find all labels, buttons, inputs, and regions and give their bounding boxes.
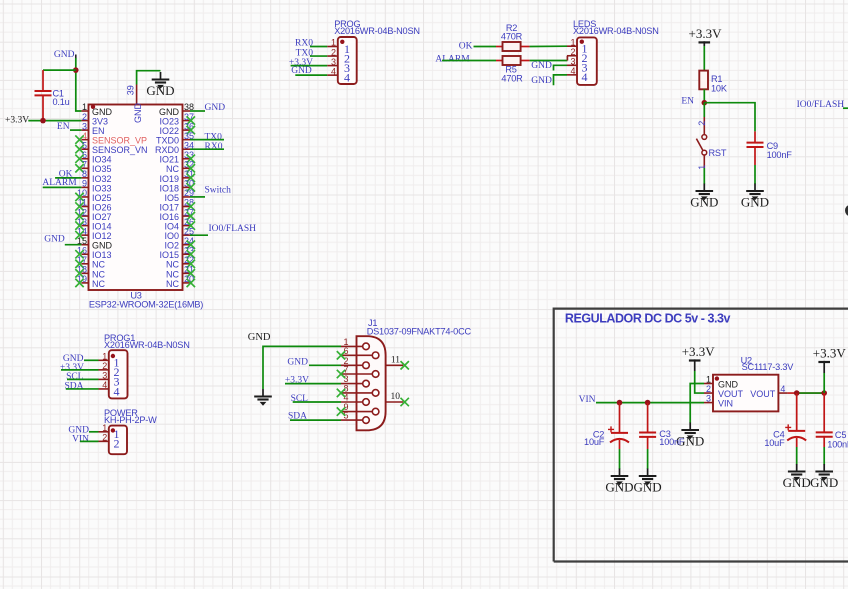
svg-text:SENSOR_VP: SENSOR_VP [92,136,147,146]
U3 pin 11 IO26 (left) [75,198,111,213]
svg-text:NC: NC [166,279,179,289]
wire U3 pin 34 to RX0 label [190,148,224,150]
svg-text:1: 1 [82,102,87,112]
wire R5 to LEDS pin 2 [530,60,568,62]
U3 pin 26 IO4 (right) [164,217,195,232]
svg-text:GND: GND [159,107,180,117]
U3 pin 34 RXD0 (right) [155,140,194,155]
svg-text:IO0/FLASH: IO0/FLASH [209,224,257,234]
U3 pin 19 NC (left) [75,274,105,289]
svg-text:0.1u: 0.1u [53,97,70,107]
J1 pin 2 [341,356,369,369]
svg-text:RX0: RX0 [205,142,223,152]
svg-text:4: 4 [343,393,348,403]
svg-text:3: 3 [82,121,87,131]
connector PROG1 body [109,350,128,398]
U3 pin 28 IO17 (right) [159,198,195,213]
svg-text:DS1037-09FNAKT74-0CC: DS1037-09FNAKT74-0CC [367,327,472,337]
U3 pin 35 TXD0 (right) [156,131,194,146]
wire SCL to PROG1 pin 3 [67,378,99,380]
svg-text:IO23: IO23 [159,116,179,126]
svg-text:36: 36 [184,121,194,131]
wire GND to POWER pin 1 [89,431,99,433]
wire R2 to LEDS pin 1 [530,45,567,47]
wire C4 to ground [796,447,798,465]
wire IO0/FLASH to edge [843,107,848,109]
wire SDA to J1 pin 5 [290,419,341,421]
svg-text:X2016WR-04B-N0SN: X2016WR-04B-N0SN [573,26,659,36]
svg-text:Switch: Switch [205,185,232,195]
svg-text:GND: GND [133,103,143,124]
wire junction to C9 [704,103,755,132]
svg-text:100nF: 100nF [659,437,685,447]
svg-text:IO5: IO5 [164,193,179,203]
svg-text:IO25: IO25 [92,193,112,203]
POWER pin 1 marker dot [111,428,115,432]
svg-text:GND: GND [783,475,811,490]
svg-text:GND: GND [634,480,662,495]
U2 pin 2 VOUT [704,384,744,399]
IC U3 ESP32-WROOM-32E body [89,105,183,291]
wire C1 top branch [43,69,76,71]
connector J1 DB9 body [357,336,386,430]
J1 pin 8 [337,384,379,398]
connector PROG body [338,37,357,84]
svg-text:IO2: IO2 [164,241,179,251]
wire +3.3V to R1 [703,41,705,46]
frame REGULADOR DC DC 5v - 3.3v [554,309,848,562]
svg-text:100nF: 100nF [827,439,848,449]
svg-text:OK: OK [459,41,473,51]
svg-text:IO16: IO16 [159,212,179,222]
svg-text:3: 3 [706,394,711,404]
clipped glyph at right edge [845,205,848,216]
svg-text:10uF: 10uF [764,438,785,448]
J1 pin 11 shield [386,355,409,369]
PROG1 pin 2 [99,361,120,379]
svg-text:IO17: IO17 [159,202,179,212]
svg-text:TXD0: TXD0 [156,136,179,146]
PROG pin 4 [327,66,350,84]
svg-text:IO27: IO27 [92,212,112,222]
svg-text:GND: GND [92,107,113,117]
U3 pin 20 NC (right) [166,274,195,289]
PROG pin 3 [327,57,350,75]
svg-text:2: 2 [114,437,120,451]
regulator U2 body [713,375,778,412]
wire +3.3V to J1 pin 3 [285,383,341,385]
U3 pin 1 GND (left) [81,102,112,117]
U3 pin 14 IO12 (left) [75,226,111,241]
svg-text:REGULADOR DC DC 5v - 3.3v: REGULADOR DC DC 5v - 3.3v [565,312,731,326]
junction on GND net at C1 top [73,67,79,73]
wire C2 to ground [619,449,621,469]
svg-text:26: 26 [184,217,194,227]
POWER pin 1 [99,423,120,441]
wire +3.3V to PROG1 pin 2 [61,369,99,371]
svg-text:NC: NC [166,164,179,174]
svg-text:2: 2 [102,433,107,443]
svg-text:GND: GND [44,234,65,244]
svg-text:GND: GND [146,83,174,98]
svg-text:37: 37 [184,112,194,122]
svg-text:IO14: IO14 [92,222,112,232]
wire C3 to ground [647,449,649,469]
svg-text:IO19: IO19 [159,174,179,184]
svg-text:1: 1 [570,37,575,47]
svg-text:VIN: VIN [579,395,596,405]
svg-text:GND: GND [531,76,552,86]
svg-text:+3.3V: +3.3V [689,26,723,41]
svg-text:ESP32-WROOM-32E(16MB): ESP32-WROOM-32E(16MB) [89,300,203,310]
ground symbol below C5 [810,464,838,490]
wire GND to J1 pin 2 [309,364,341,366]
wire GND to LEDS pin 3 [554,65,568,70]
svg-text:GND: GND [248,332,271,343]
PROG1 pin 4 [99,380,120,398]
ground symbol below C3 [634,469,662,495]
svg-text:NC: NC [166,269,179,279]
wire TX0 to PROG pin 2 [310,55,327,57]
capacitor C4 (polarized) [796,393,798,431]
svg-text:2: 2 [102,361,107,371]
svg-text:IO26: IO26 [92,202,112,212]
switch RST [696,117,706,170]
wire +3.3V right to VOUT junction [823,373,825,393]
wire switch to ground [703,168,705,184]
U3 pin 15 GND (left) [77,236,113,251]
svg-text:27: 27 [184,207,194,217]
wire ALARM to R5 [442,60,496,62]
svg-text:KH-PH-2P-W: KH-PH-2P-W [104,415,157,425]
wire GND label to U3 pin 1 [75,55,77,60]
svg-text:21: 21 [184,265,194,275]
svg-text:+3.3V: +3.3V [813,345,847,360]
svg-text:4: 4 [344,70,350,84]
ground symbol below U2 [676,423,704,449]
U3 pin 21 NC (right) [166,265,195,280]
svg-text:IO12: IO12 [92,231,112,241]
J1 pin 9 [337,402,379,416]
LEDS pin 4 [567,66,588,84]
svg-text:4: 4 [102,380,107,390]
U3 pin 25 IO0 (right) [164,226,194,241]
svg-text:VIN: VIN [72,435,89,445]
wire C9 to ground [754,165,756,184]
U3 pin 8 IO32 (left) [81,169,111,184]
svg-text:X2016WR-04B-N0SN: X2016WR-04B-N0SN [334,26,420,36]
U3 pin 13 IO14 (left) [75,217,111,232]
wire U3 pin39 to ground [137,71,161,85]
U3 pin 16 IO13 (left) [75,245,111,260]
svg-text:GND: GND [287,357,308,367]
capacitor C5 [823,393,825,432]
ground symbol below C2 [605,469,633,495]
capacitor C9 [754,131,756,142]
wire +3.3V to PROG pin 3 [291,65,328,67]
wire U2 pin 4 VOUT to capacitors [788,392,825,394]
LEDS pin 2 [567,47,588,65]
svg-text:GND: GND [690,195,718,210]
U3 pin 22 NC (right) [166,255,195,270]
wire EN label to U3 pin 3 [70,129,81,131]
U3 pin 10 IO25 (left) [75,188,111,203]
ground symbol J1 [254,389,272,406]
svg-text:SENSOR_VN: SENSOR_VN [92,145,148,155]
wire +3.3V to U2 pin 2 [695,371,704,393]
U2 pin 1 marker dot [715,376,719,380]
connector LEDS body [577,37,597,85]
svg-text:IO22: IO22 [159,126,179,136]
wire U3 pin 29 to Switch label [190,196,205,198]
ground symbol top (pin 39) [146,72,174,98]
U3 pin 37 IO23 (right) [159,112,195,127]
wire J1 pin 1 to ground [263,346,341,389]
svg-text:NC: NC [92,279,105,289]
svg-text:ALARM: ALARM [435,55,470,65]
U2 pin 4 VOUT (right) [750,384,787,399]
svg-text:10K: 10K [711,84,728,94]
wire VIN to POWER pin 2 [80,440,99,442]
power symbol +3.3V right [813,345,847,362]
wire OK to R2 [474,46,497,48]
svg-text:SC1117-3.3V: SC1117-3.3V [742,362,795,372]
svg-text:GND: GND [718,379,739,389]
wire OK label to U3 pin 8 [55,177,81,179]
capacitor C1 [42,70,44,91]
svg-text:IO18: IO18 [159,183,179,193]
wire R1 to EN junction [703,89,705,102]
svg-text:10uF: 10uF [584,437,605,447]
svg-text:X2016WR-04B-N0SN: X2016WR-04B-N0SN [104,340,190,350]
svg-text:+3.3V: +3.3V [5,116,29,126]
ground symbol below C9 [741,184,769,210]
svg-text:22: 22 [184,255,194,265]
svg-text:RXD0: RXD0 [155,145,179,155]
U3 pin 36 IO22 (right) [159,121,195,136]
svg-text:9: 9 [82,179,87,189]
junction VIN at C3 [645,400,651,406]
PROG1 pin 1 [99,352,120,370]
svg-text:4: 4 [780,384,785,394]
svg-text:3: 3 [331,57,336,67]
J1 pin 6 [337,346,379,360]
svg-text:470R: 470R [501,74,523,84]
svg-text:100nF: 100nF [767,150,793,160]
U3 pin 4 SENSOR_VP (left) [75,131,147,146]
svg-text:GND: GND [92,241,113,251]
svg-text:470R: 470R [501,31,523,41]
wire GND to PROG pin 4 [295,74,327,76]
U3 pin 5 SENSOR_VN (left) [75,140,147,155]
junction EN node [702,100,708,106]
U3 pin 17 NC (left) [75,255,105,270]
svg-text:IO0: IO0 [164,231,179,241]
svg-text:GND: GND [205,103,226,113]
wire RX0 to PROG pin 1 [310,46,327,48]
svg-text:3V3: 3V3 [92,116,108,126]
U3 pin 38 GND (right) [159,102,194,117]
wire ALARM label to U3 pin 9 [43,186,82,188]
svg-text:IO32: IO32 [92,174,112,184]
svg-text:1: 1 [102,423,107,433]
U3 pin 33 IO21 (right) [159,150,195,165]
svg-text:RST: RST [709,148,727,158]
U2 pin 1 GND [704,375,739,390]
svg-text:2: 2 [331,47,336,57]
svg-text:EN: EN [92,126,105,136]
U3 pin 6 IO34 (left) [75,150,111,165]
PROG pin 1 marker dot [340,40,344,44]
U3 pin 24 IO2 (right) [164,236,195,251]
svg-text:ALARM: ALARM [42,178,77,188]
U3 pin 2 3V3 (left) [81,112,108,127]
svg-text:VIN: VIN [718,399,733,409]
svg-text:GND: GND [54,50,75,60]
svg-text:EN: EN [681,97,694,107]
svg-text:11: 11 [391,355,400,365]
svg-text:23: 23 [184,245,194,255]
svg-text:3: 3 [570,57,575,67]
svg-text:4: 4 [582,70,588,84]
svg-text:GND: GND [810,475,838,490]
ground symbol below RST [690,184,718,210]
svg-text:32: 32 [184,160,194,170]
U2 pin 3 VIN [704,394,733,409]
junction VOUT at C4 [794,390,800,396]
U3 pin 1 marker dot [91,105,95,109]
svg-text:GND: GND [531,61,552,71]
svg-text:8: 8 [82,169,87,179]
wire U3 pin 25 to IO0/FLASH label [190,234,208,236]
LEDS pin 3 [567,57,588,75]
resistor R1 [699,71,708,90]
wire +3.3V to U3 pin 2 [28,120,81,122]
svg-text:1: 1 [706,375,711,385]
resistor R5 [496,60,530,62]
svg-text:1: 1 [102,352,107,362]
U3 pin 29 IO5 (right) [164,188,194,203]
svg-text:2: 2 [697,121,707,126]
U3 pin 23 IO15 (right) [159,245,195,260]
LEDS pin 1 marker dot [580,40,584,44]
svg-text:2: 2 [82,112,87,122]
wire GND label to U3 pin 15 [65,244,82,246]
PROG1 pin 1 marker dot [111,354,115,358]
svg-text:GND: GND [741,195,769,210]
PROG1 pin 3 [99,371,120,389]
J1 pin 7 [337,365,379,379]
svg-text:4: 4 [570,66,575,76]
U3 pin 32 NC (right) [166,160,195,175]
svg-text:30: 30 [184,179,194,189]
svg-text:2: 2 [570,47,575,57]
svg-text:39: 39 [126,85,136,95]
svg-text:4: 4 [114,384,120,398]
power symbol +3.3V above U2 [682,344,716,361]
U3 pin 39 GND (top) [126,85,144,124]
svg-text:28: 28 [184,198,194,208]
svg-text:10: 10 [391,392,401,402]
J1 pin 10 shield [386,392,409,406]
resistor R2 [496,46,530,48]
wire GND to LEDS pin 4 [554,75,568,85]
svg-text:1: 1 [331,38,336,48]
ground symbol below C4 [783,464,811,490]
svg-text:33: 33 [184,150,194,160]
svg-text:IO21: IO21 [159,155,179,165]
wire VIN to U2 pin 3 [596,402,704,404]
svg-text:VOUT: VOUT [750,389,776,399]
U3 pin 30 IO18 (right) [159,179,195,194]
capacitor C3 [647,403,649,433]
svg-text:VOUT: VOUT [718,389,744,399]
J1 pin 3 [341,374,369,387]
svg-text:20: 20 [184,274,194,284]
svg-text:IO4: IO4 [164,222,179,232]
wire SDA to PROG1 pin 4 [66,388,99,390]
U3 pin 7 IO35 (left) [75,160,111,175]
svg-text:GND: GND [605,480,633,495]
LEDS pin 1 [567,37,588,55]
svg-text:24: 24 [184,236,194,246]
junction VIN at C2 [617,400,623,406]
svg-text:31: 31 [184,169,194,179]
wire U3 pin 38 to GND label [190,110,205,112]
PROG pin 1 [327,38,350,56]
wire U3 pin 35 to TX0 label [190,139,224,141]
svg-text:2: 2 [706,384,711,394]
POWER pin 2 [99,433,120,451]
J1 pin 4 [341,393,369,406]
svg-text:EN: EN [57,122,70,132]
svg-text:NC: NC [92,269,105,279]
U3 pin 9 IO33 (left) [81,179,111,194]
wire GND to PROG1 pin 1 [84,359,99,361]
U3 pin 27 IO16 (right) [159,207,195,222]
wire C5 to ground [823,447,825,465]
svg-text:IO35: IO35 [92,164,112,174]
PROG pin 2 [327,47,350,65]
svg-text:3: 3 [102,371,107,381]
svg-text:IO34: IO34 [92,155,112,165]
connector POWER body [109,426,127,455]
svg-text:IO0/FLASH: IO0/FLASH [797,100,845,110]
J1 pin 5 [341,411,369,424]
wire U2 pin 1 to ground [690,384,704,424]
U3 pin 18 NC (left) [75,265,105,280]
svg-text:4: 4 [331,66,336,76]
U3 pin 3 EN (left) [81,121,104,136]
junction +3.3V / C1 [40,118,46,124]
U3 pin 31 IO19 (right) [159,169,195,184]
wire junction to switch RST [703,103,705,117]
wire SCL to J1 pin 4 [293,401,341,403]
svg-text:IO33: IO33 [92,183,112,193]
J1 pin 1 [341,337,369,350]
capacitor C2 (polarized) [619,403,621,433]
svg-text:IO13: IO13 [92,250,112,260]
svg-text:+3.3V: +3.3V [682,344,716,359]
svg-text:NC: NC [92,260,105,270]
svg-text:NC: NC [166,260,179,270]
power symbol +3.3V at R1 [689,26,723,43]
svg-text:IO15: IO15 [159,250,179,260]
svg-text:1: 1 [697,165,707,170]
junction VOUT at C5 [821,390,827,396]
U3 pin 12 IO27 (left) [75,207,111,222]
